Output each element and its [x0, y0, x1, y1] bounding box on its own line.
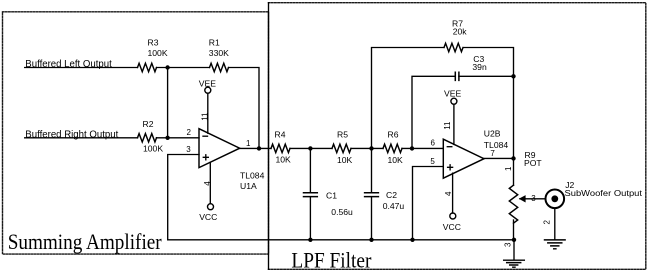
svg-text:VCC: VCC: [443, 222, 461, 232]
svg-text:330K: 330K: [209, 48, 229, 58]
wire: R4 to R5: [290, 147, 332, 149]
connector J2 center pin: [551, 195, 558, 202]
op-amp U2B minus symbol: [447, 146, 452, 148]
LPF Filter block border (dotted top/right/bottom): [269, 3, 646, 270]
wire: R3 to R1 through node: [157, 67, 210, 69]
svg-text:10K: 10K: [276, 155, 292, 165]
svg-text:0.56u: 0.56u: [331, 207, 353, 217]
svg-text:0.47u: 0.47u: [383, 201, 405, 211]
capacitor C1 upper wire: [309, 148, 311, 192]
op-amp U1A plus symbol: [203, 155, 208, 160]
VCC symbol U1A: [208, 204, 214, 210]
svg-text:R6: R6: [388, 130, 399, 140]
svg-text:5: 5: [430, 157, 435, 166]
wire: J2 pin 2 to ground: [554, 208, 556, 239]
svg-text:2: 2: [543, 220, 552, 225]
svg-text:U2B: U2B: [484, 129, 501, 139]
junction node pin5-rail: [410, 238, 414, 242]
wire: Buffered Left Output line to R3: [25, 67, 138, 69]
wire: POT bottom to rail: [513, 220, 515, 241]
svg-text:R2: R2: [143, 119, 154, 129]
svg-text:TL084: TL084: [484, 140, 509, 150]
wire: U2B output pin 7: [484, 157, 514, 159]
U2B pin 11 wire: [453, 104, 455, 144]
ground symbol main: [504, 260, 525, 267]
svg-text:VCC: VCC: [199, 212, 217, 222]
svg-text:100K: 100K: [148, 48, 168, 58]
svg-text:Summing Amplifier: Summing Amplifier: [8, 229, 163, 254]
svg-text:2: 2: [187, 128, 192, 137]
svg-text:U1A: U1A: [240, 181, 257, 191]
wire: U1A pin 3 to ground rail: [168, 155, 514, 240]
VEE symbol U2B: [451, 98, 457, 104]
VEE symbol U1A: [205, 87, 211, 93]
wire: node between R3 and R2 (vertical): [167, 68, 169, 138]
potentiometer R9 body: [509, 185, 517, 223]
wire: C3 right leg: [459, 75, 514, 77]
svg-text:3: 3: [186, 145, 191, 154]
U1A pin 4 wire: [209, 162, 211, 203]
U1A pin 11 wire: [207, 93, 209, 133]
resistor R4: [271, 144, 290, 152]
junction node C2-rail: [369, 238, 373, 242]
wire: Buffered Right Output line to R2: [25, 137, 138, 139]
wire: ground stem below rail at POT: [513, 241, 515, 260]
svg-text:C1: C1: [326, 191, 337, 201]
op-amp U2B plus symbol: [448, 165, 453, 170]
svg-text:11: 11: [201, 112, 210, 121]
svg-text:POT: POT: [524, 158, 542, 168]
junction node R4-R5-C1: [308, 146, 312, 150]
svg-text:VEE: VEE: [444, 89, 461, 99]
svg-text:LPF Filter: LPF Filter: [291, 248, 372, 273]
svg-text:SubWoofer Output: SubWoofer Output: [565, 188, 643, 198]
svg-text:R5: R5: [337, 130, 348, 140]
svg-text:100K: 100K: [143, 144, 163, 154]
svg-text:10K: 10K: [337, 155, 353, 165]
wire: U1A output pin 1 to R4: [240, 147, 271, 149]
svg-text:VEE: VEE: [199, 79, 216, 89]
svg-text:6: 6: [431, 139, 436, 148]
svg-text:10K: 10K: [388, 155, 404, 165]
svg-text:4: 4: [444, 191, 453, 196]
svg-text:Buffered Left Output: Buffered Left Output: [25, 59, 112, 70]
VCC symbol U2B: [450, 213, 456, 219]
svg-text:11: 11: [443, 121, 452, 130]
wire: U2B pin 5 to ground rail: [413, 167, 444, 240]
junction node R5-R6-R7: [369, 146, 373, 150]
op-amp U1A minus symbol: [203, 135, 208, 137]
U2B pin 4 wire: [452, 173, 454, 213]
wire: R6 to U2B pin 6: [402, 147, 443, 149]
resistor R3: [138, 63, 157, 71]
junction node R6-C3-pin6: [410, 146, 414, 150]
wire: R2 to U1A pin 2: [157, 137, 200, 139]
wire: wiper to J2: [525, 198, 545, 200]
junction node U1A output: [257, 146, 261, 150]
junction node C3-R7 leg: [511, 74, 515, 78]
wire: R1 right to feedback vertical: [229, 68, 260, 149]
svg-text:TL084: TL084: [240, 171, 265, 181]
svg-text:Buffered Right Output: Buffered Right Output: [25, 130, 118, 141]
svg-text:1: 1: [246, 139, 251, 148]
svg-text:R3: R3: [148, 38, 159, 48]
LPF Filter block left edge (solid): [268, 3, 270, 270]
wire: C3 feedback left leg: [412, 76, 455, 148]
resistor R2: [138, 134, 157, 142]
svg-text:39n: 39n: [472, 62, 487, 72]
svg-text:20k: 20k: [453, 27, 468, 37]
connector J2 outer ring: [546, 190, 565, 209]
op-amp U1A triangle: [199, 129, 240, 168]
capacitor C2 lower wire: [371, 197, 373, 240]
wire: R5 to R6: [351, 147, 383, 149]
wire: R7 feedback left leg: [372, 48, 445, 149]
resistor R7: [444, 43, 463, 51]
wire: R7 right leg down to U2B output: [464, 48, 514, 159]
op-amp U2B triangle: [443, 139, 484, 178]
svg-text:R1: R1: [209, 38, 220, 48]
junction node U2B output: [511, 156, 515, 160]
capacitor C3 plates: [455, 72, 459, 80]
svg-text:1: 1: [504, 166, 513, 171]
resistor R6: [383, 144, 402, 152]
svg-text:7: 7: [490, 149, 495, 158]
ground symbol at J2: [545, 240, 566, 249]
capacitor C2 upper wire: [371, 148, 373, 192]
resistor R5: [332, 144, 351, 152]
svg-text:3: 3: [531, 194, 536, 203]
junction node POT-ground-rail: [512, 238, 516, 242]
capacitor C1 lower wire: [309, 197, 311, 240]
svg-text:4: 4: [203, 181, 212, 186]
capacitor C1 plates: [304, 193, 318, 197]
junction node C1-rail: [308, 238, 312, 242]
svg-text:C2: C2: [386, 190, 397, 200]
resistor R1: [210, 63, 229, 71]
svg-text:3: 3: [504, 242, 513, 247]
Summing Amplifier block border (dashed box): [3, 12, 269, 254]
POT wiper arrow: [520, 198, 525, 200]
wire: output node down to POT: [513, 158, 515, 185]
junction node R3-R1: [165, 65, 169, 69]
junction node R2-pin2: [165, 136, 169, 140]
capacitor C2 plates: [365, 193, 379, 197]
svg-text:R4: R4: [275, 130, 286, 140]
